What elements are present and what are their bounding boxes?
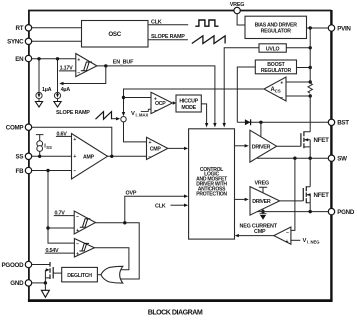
node FB branch <box>46 169 49 172</box>
node OVP tap <box>123 221 126 224</box>
wire PGND rail <box>257 211 328 213</box>
wire UVLO to control logic <box>224 48 259 124</box>
pin GND <box>10 280 31 288</box>
wire control logic to driver 2 <box>235 198 245 200</box>
svg-text:−: − <box>76 214 79 220</box>
current sense amp Acs <box>264 77 286 101</box>
wire RT to OSC <box>32 27 82 29</box>
wire Acs - input to bus <box>286 95 310 97</box>
error amplifier AMP <box>72 134 108 180</box>
wire NFET2 source to PGND <box>309 203 311 212</box>
node GND tap <box>44 281 47 284</box>
node Acs+ bus tap <box>309 80 312 83</box>
wire OR gate to deglitch <box>97 274 101 276</box>
svg-text:DRIVER: DRIVER <box>252 145 271 151</box>
wire OVP to control logic <box>125 196 184 223</box>
wire FB to 0.7V comparator + <box>48 227 74 229</box>
svg-text:PGND: PGND <box>337 209 355 216</box>
svg-text:DEGLITCH: DEGLITCH <box>67 273 92 279</box>
svg-text:SYNC: SYNC <box>7 39 24 46</box>
svg-text:CMP: CMP <box>150 147 162 153</box>
svg-text:CMP: CMP <box>254 229 266 235</box>
control logic block <box>189 129 235 239</box>
svg-text:OVP: OVP <box>126 190 137 196</box>
deglitch block <box>62 267 98 282</box>
wire to ground symbol <box>44 283 46 290</box>
wire OCP output to hiccup mode <box>171 102 174 104</box>
wire NFET1 source to SW <box>309 147 311 158</box>
svg-text:V: V <box>131 111 135 117</box>
svg-text:NFET: NFET <box>314 192 330 199</box>
svg-text:SS: SS <box>46 145 52 150</box>
wire boost regulator to diode anode <box>237 67 255 122</box>
wire SYNC to OSC <box>32 40 82 42</box>
svg-text:OSC: OSC <box>108 31 121 38</box>
node FB to OVP + <box>46 226 49 229</box>
sense resistor on PVIN bus <box>308 83 312 93</box>
svg-text:+: + <box>77 57 80 63</box>
wire BST line with boost diode <box>237 121 328 123</box>
pin SW <box>328 155 347 163</box>
label VI_MAX with wire to OCP - <box>131 109 151 117</box>
wire slope ramp into summing node <box>112 118 117 120</box>
svg-text:CS: CS <box>275 89 281 94</box>
node SW neg sense <box>293 157 296 160</box>
ground driver 2 <box>260 212 267 220</box>
current source ISS <box>36 135 52 157</box>
wire FB to amp <box>32 170 72 172</box>
oscillator OSC <box>82 21 149 48</box>
svg-text:BST: BST <box>337 120 349 127</box>
wire hiccup mode to control logic <box>201 104 206 124</box>
wire PVIN to bias regulator <box>307 27 329 29</box>
UVLO block <box>259 44 286 53</box>
wire 0.7V comparator output to OR gate <box>96 223 140 279</box>
transistor NFET high side <box>277 131 330 148</box>
OR gate <box>101 266 123 283</box>
wire neg cmp output to control logic <box>239 235 274 237</box>
wire AMP output to CMP - <box>108 155 147 157</box>
boost regulator <box>255 60 296 74</box>
svg-text:SLOPE RAMP: SLOPE RAMP <box>56 110 90 116</box>
svg-text:VREG: VREG <box>255 181 269 187</box>
svg-text:−: − <box>77 70 80 76</box>
wire SS to amp <box>32 155 72 157</box>
node Acs- bus tap <box>309 94 312 97</box>
comparator OCP <box>151 92 172 114</box>
pin PVIN <box>328 25 351 33</box>
svg-text:EN_BUF: EN_BUF <box>113 59 134 65</box>
comparator UV 0.54V <box>74 239 94 258</box>
node BST to driver supply <box>259 121 262 124</box>
svg-text:+: + <box>76 228 79 234</box>
node EN 1uA branch <box>37 57 40 60</box>
svg-text:−: − <box>280 95 283 101</box>
wire Acs + input to bus <box>286 81 310 83</box>
svg-text:NFET: NFET <box>314 137 330 144</box>
svg-text:+: + <box>149 140 152 146</box>
svg-text:+: + <box>73 154 76 160</box>
svg-text:SW: SW <box>337 156 347 163</box>
pin COMP <box>6 124 32 132</box>
pin SS <box>16 153 32 161</box>
wire PVIN bus lower to NFET drain <box>309 94 311 132</box>
wire CLK to control logic <box>171 204 185 206</box>
svg-text:REGULATOR: REGULATOR <box>261 29 292 35</box>
comparator CMP <box>147 137 168 160</box>
bias and driver regulator <box>245 16 307 38</box>
node UVLO bus tap <box>309 46 312 49</box>
wire EN_BUF output <box>97 66 215 124</box>
wire boost regulator to bus <box>297 67 311 69</box>
label NEG CURRENT CMP <box>240 223 278 235</box>
svg-text:+: + <box>76 251 79 257</box>
wire SW to neg cmp - input <box>291 158 295 230</box>
svg-text:MODE: MODE <box>181 105 196 111</box>
svg-text:REGULATOR: REGULATOR <box>261 68 292 74</box>
summing node <box>121 117 126 122</box>
outer IC boundary box <box>28 10 333 301</box>
ground below 1uA <box>35 102 42 108</box>
label 1.17V with wire to - input <box>59 66 76 72</box>
svg-text:PGOOD: PGOOD <box>2 262 25 269</box>
label 0.6V with wire to amp <box>56 131 72 137</box>
slope ramp waveform glyph <box>192 36 225 44</box>
wire EN_BUF to 4uA source control <box>63 66 106 84</box>
label VREG supply for driver 2 <box>255 181 269 195</box>
svg-text:−: − <box>73 168 76 174</box>
svg-text:COMP: COMP <box>6 125 24 132</box>
ground below GND <box>41 290 49 297</box>
svg-text:4µA: 4µA <box>61 87 71 93</box>
clock waveform glyph <box>195 20 218 26</box>
wire NFET2 drain to SW <box>309 158 311 187</box>
wire PVIN bus upper <box>309 28 311 83</box>
wire VREG to bias regulator <box>237 14 245 25</box>
pin VREG <box>230 2 244 14</box>
node boost bus tap <box>309 66 312 69</box>
label VI_NEG <box>303 238 320 245</box>
wire driver 2 ground stub <box>262 209 264 212</box>
node PGND NFET junction <box>309 210 312 213</box>
wire 0.54V comparator output to OR gate <box>94 248 128 270</box>
node SW NFET junction <box>309 157 312 160</box>
svg-text:I_NEG: I_NEG <box>307 239 320 244</box>
transistor PGOOD FET <box>32 262 53 283</box>
node AMP output / COMP <box>110 155 113 158</box>
svg-text:BIAS AND DRIVER: BIAS AND DRIVER <box>255 22 298 28</box>
node EN_BUF output branch <box>104 64 107 67</box>
wire GND <box>32 282 45 284</box>
ground below 4uA <box>54 102 61 108</box>
svg-text:SS: SS <box>16 154 24 161</box>
node PVIN bus tap <box>309 26 312 29</box>
svg-text:CLK: CLK <box>151 19 162 25</box>
wire summing node to CMP + <box>124 122 147 142</box>
diode boost <box>245 119 251 125</box>
pin BST <box>328 119 349 126</box>
comparator EN_BUF 1.17V <box>76 54 97 77</box>
pin EN <box>15 55 32 63</box>
svg-text:−: − <box>76 242 79 248</box>
wire EN to comparator <box>32 58 76 60</box>
wire deglitch to PGOOD FET gate <box>53 272 62 274</box>
svg-text:CLK: CLK <box>155 204 166 210</box>
svg-text:−: − <box>148 154 151 160</box>
label 0.54V with wire to + input <box>45 248 75 254</box>
wire CLK from OSC <box>148 24 188 26</box>
driver 2 low side <box>250 187 280 216</box>
svg-text:BOOST: BOOST <box>267 62 285 68</box>
wire SLOPE RAMP from OSC <box>148 39 188 41</box>
wire FB to OVP comparators <box>48 171 74 244</box>
svg-text:PVIN: PVIN <box>337 25 351 32</box>
comparator NEG CURRENT CMP <box>274 227 291 245</box>
wire CMP output to control logic <box>168 147 184 149</box>
wire UVLO to bus <box>286 47 310 49</box>
svg-text:+: + <box>286 239 289 245</box>
current source 1uA <box>36 59 52 102</box>
svg-text:+: + <box>154 96 157 102</box>
node EN 4uA branch <box>56 57 59 60</box>
svg-text:RT: RT <box>16 25 24 32</box>
pin FB <box>16 167 32 175</box>
wire Acs output to OCP and summing node <box>124 89 265 113</box>
svg-text:I_MAX: I_MAX <box>136 113 149 118</box>
node Acs to OCP branch <box>122 96 125 99</box>
pin PGND <box>328 208 355 215</box>
driver 1 high side <box>250 130 277 162</box>
svg-text:EN: EN <box>15 56 24 63</box>
wire BST to driver 1 top <box>260 122 262 137</box>
svg-text:UVLO: UVLO <box>266 46 280 52</box>
svg-text:FB: FB <box>16 168 25 175</box>
svg-text:PROTECTION: PROTECTION <box>196 191 227 197</box>
current source 4uA <box>54 59 70 102</box>
comparator OVP 0.7V <box>74 211 95 234</box>
hiccup mode block <box>176 95 201 112</box>
svg-text:SLOPE RAMP: SLOPE RAMP <box>151 34 185 40</box>
svg-text:AMP: AMP <box>83 155 95 161</box>
wire control logic to driver 1 <box>235 145 245 147</box>
pin PGOOD <box>2 261 32 269</box>
svg-text:BLOCK DIAGRAM: BLOCK DIAGRAM <box>148 308 203 316</box>
wire VI_NEG to neg cmp + input <box>291 239 300 241</box>
pin SYNC <box>7 38 32 46</box>
svg-text:+: + <box>73 137 76 143</box>
wire SW rail <box>257 157 328 159</box>
label 0.7V with wire to - input <box>54 211 74 217</box>
wire branch to OCP + <box>124 97 152 99</box>
svg-text:DRIVER: DRIVER <box>252 199 271 205</box>
slope ramp glyph at summing node <box>96 112 112 120</box>
svg-text:−: − <box>154 108 157 114</box>
node SS soft-start tap <box>38 155 41 158</box>
transistor NFET low side <box>280 186 330 203</box>
pin RT <box>16 25 32 33</box>
wire COMP to amp output node <box>32 127 112 156</box>
svg-text:HICCUP: HICCUP <box>179 99 198 105</box>
svg-text:1µA: 1µA <box>42 87 52 93</box>
svg-text:−: − <box>286 230 289 236</box>
node driver 2 ground <box>261 210 264 213</box>
svg-text:+: + <box>280 81 283 87</box>
svg-text:GND: GND <box>10 280 24 287</box>
svg-text:V: V <box>303 238 307 244</box>
